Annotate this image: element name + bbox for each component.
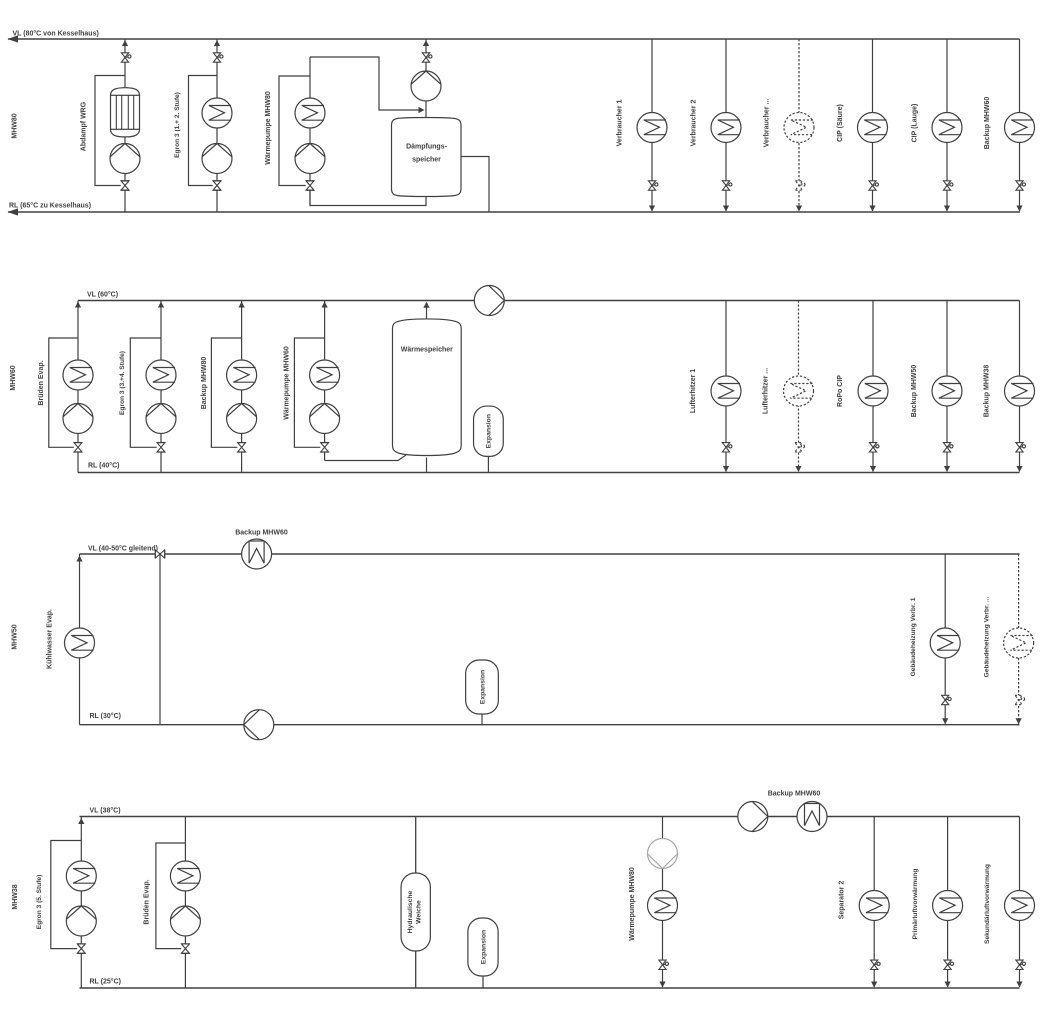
wire Waermepumpe MHW60 to storage tank <box>325 455 406 461</box>
tank Daempfungsspeicher <box>392 118 462 197</box>
svg-text:Verbraucher 2: Verbraucher 2 <box>691 100 698 147</box>
label Egron 3 (5. Stufe) <box>36 875 43 930</box>
wire source branch Egron 3 (5. Stufe) <box>80 817 82 989</box>
wire expansion vessel to RL (MHW60) <box>487 456 489 472</box>
label Backup MHW38 <box>984 365 991 418</box>
wire bypass Waermepumpe MHW80 <box>279 76 310 186</box>
wire consumer branch RoPo CIP <box>872 301 874 472</box>
heat exchanger Waermepumpe MHW80 (MHW38) <box>648 891 678 921</box>
junction arrow into VL (Egron 3 (3.+4. Stufe)) <box>158 302 164 308</box>
wire source branch Brueden Evap. (MHW38) <box>184 817 186 989</box>
junction arrow into RL (Backup MHW50) <box>944 466 950 472</box>
wire bypass Backup MHW80 <box>211 338 241 447</box>
svg-text:MHW38: MHW38 <box>12 884 19 909</box>
label Waermepumpe MHW80 (MHW38) <box>629 867 636 941</box>
label Backup MHW60 <box>984 97 991 150</box>
wire RL MHW50 return header <box>80 724 1020 726</box>
node MHW38 system label <box>12 884 19 909</box>
wire VL to hydraulic separator <box>415 817 417 874</box>
balancing valve (Abdampf WRG) <box>121 181 130 191</box>
label Gebäudeheizung Verbr. 1 <box>910 597 917 676</box>
node RL MHW60 label <box>88 462 119 470</box>
heat exchanger Gebäudeheizung Verbr. 1 <box>930 628 960 658</box>
svg-text:Egron 3 (3.+4. Stufe): Egron 3 (3.+4. Stufe) <box>119 351 126 415</box>
junction arrow into RL (Verbraucher 1) <box>649 206 655 212</box>
control valve V1 (Abdampf WRG) <box>121 53 131 62</box>
control valve (Backup MHW50) <box>943 443 953 452</box>
node MHW50 system label <box>12 624 19 649</box>
wire source branch Wärmepumpe MHW60 <box>324 301 326 461</box>
wire expansion vessel to RL (MHW50) <box>481 714 483 725</box>
label Kuehlwasser Evap. <box>47 609 54 669</box>
junction arrow into RL (Backup MHW60) <box>1016 206 1022 212</box>
svg-text:Kühlwasser Evap.: Kühlwasser Evap. <box>47 609 54 669</box>
pump inline VL MHW60 <box>474 286 504 316</box>
pump inline VL MHW38 <box>738 802 768 832</box>
svg-text:RL (40°C): RL (40°C) <box>88 462 119 470</box>
node VL MHW80 label <box>13 30 99 38</box>
svg-text:RL (25°C): RL (25°C) <box>90 978 121 986</box>
heat exchanger Egron 3 (3.+4. Stufe) <box>146 360 176 390</box>
tank Waermespeicher <box>393 319 462 456</box>
wire RL MHW38 return header <box>80 987 1020 989</box>
junction arrow into RL (Separator 2) <box>871 982 877 988</box>
wire consumer branch Gebäudeheizung Verbr. ... <box>1018 554 1020 724</box>
wire VL MHW50 supply header <box>80 553 1020 555</box>
heat exchanger Backup MHW60 inline <box>242 539 272 569</box>
svg-text:MHW80: MHW80 <box>12 113 19 138</box>
control valve (Waermepumpe MHW80 MHW38) <box>659 960 669 969</box>
svg-text:Hydraulische: Hydraulische <box>407 890 414 933</box>
wire hydraulic separator to RL <box>415 951 417 988</box>
junction arrow into RL (CIP (Lauge)) <box>944 206 950 212</box>
wire consumer branch Lufterhitzer ... <box>798 301 800 472</box>
label Wärmepumpe MHW60 <box>284 346 291 420</box>
pump inline RL MHW50 <box>244 710 274 740</box>
heat exchanger Primärluftvorwärmung <box>933 891 963 921</box>
node MHW60 system label <box>10 365 17 390</box>
junction arrow into VL (Egron 3 5. Stufe) <box>78 818 84 824</box>
balancing valve (Egron 3) <box>213 181 222 191</box>
junction arrow into RL (Lufterhitzer ...) <box>795 466 801 472</box>
control valve (Separator 2) <box>871 960 881 969</box>
expansion vessel MHW38 <box>468 918 498 976</box>
control valve (Sekundärluftvorwärmung) <box>1016 960 1026 969</box>
junction arrow into VL (Abdampf WRG) <box>122 40 128 46</box>
pump (Wärmepumpe MHW60) <box>310 404 340 434</box>
control valve V3 (tank riser) <box>422 53 432 62</box>
svg-text:Wärmepumpe MHW80: Wärmepumpe MHW80 <box>629 867 636 941</box>
heat exchanger Backup MHW60 <box>1005 113 1035 143</box>
junction arrow into RL (Gebäudeheizung Verbr. 1) <box>942 718 948 724</box>
heat exchanger Verbraucher 1 <box>637 113 667 143</box>
svg-text:Backup MHW60: Backup MHW60 <box>235 530 288 537</box>
svg-text:Backup MHW60: Backup MHW60 <box>984 97 991 150</box>
junction arrow into RL (RoPo CIP) <box>870 466 876 472</box>
control valve V2 (Egron 3) <box>213 53 223 62</box>
wire consumer branch Verbraucher ... <box>798 39 800 211</box>
heat exchanger CIP (Lauge) <box>932 113 962 143</box>
label Egron 3 (1.+2. Stufe) <box>174 92 181 158</box>
heat exchanger Egron 3 (1.+2. Stufe) <box>202 98 232 128</box>
control valve (Gebäudeheizung Verbr. ...) <box>1015 695 1025 704</box>
wire tank outlet to RL <box>461 157 489 213</box>
wire Waermepumpe MHW80 bottom to tank <box>310 190 426 205</box>
hydraulic separator Hydraulische Weiche <box>401 873 430 951</box>
wire consumer branch Separator 2 <box>873 817 875 988</box>
pump (Egron 3 (3.+4. Stufe)) <box>146 404 176 434</box>
svg-text:Wärmepumpe MHW60: Wärmepumpe MHW60 <box>284 346 291 420</box>
heat exchanger Egron 3 (5. Stufe) <box>66 861 96 891</box>
heat exchanger Separator 2 <box>859 891 889 921</box>
control valve (Gebäudeheizung Verbr. 1) <box>942 695 952 704</box>
control valve (Verbraucher ...) <box>795 181 805 190</box>
junction arrow into RL (Waermepumpe MHW80 MHW38) <box>659 982 665 988</box>
svg-text:MHW50: MHW50 <box>12 624 19 649</box>
control valve (Backup MHW38) <box>1016 443 1026 452</box>
heat exchanger Abdampf WRG (tube bundle) <box>111 88 140 137</box>
wire Waermepumpe MHW80 to buffer tank feed <box>310 57 419 110</box>
wire VL MHW38 supply header <box>80 816 1020 818</box>
heat exchanger Brueden Evap. (MHW38) <box>170 861 200 891</box>
label Gebäudeheizung Verbr. ... <box>983 597 990 678</box>
label Backup MHW80 <box>201 357 208 410</box>
label Verbraucher ... <box>764 99 771 148</box>
control valve (Verbraucher 1) <box>648 181 658 190</box>
svg-text:VL (80°C von Kesselhaus): VL (80°C von Kesselhaus) <box>13 30 99 38</box>
label Waermespeicher <box>401 347 453 354</box>
heat exchanger Verbraucher 2 <box>711 113 741 143</box>
junction arrow into tank riser <box>419 107 425 113</box>
svg-text:Backup MHW60: Backup MHW60 <box>768 791 821 798</box>
label Verbraucher 1 <box>617 100 624 147</box>
balancing valve (Egron 3 5. Stufe) <box>77 944 86 954</box>
heat exchanger Waermepumpe MHW80 <box>295 98 325 128</box>
label Brueden Evap. (MHW38) <box>144 879 151 924</box>
label Backup MHW60 (inline HX MHW50) <box>235 530 288 537</box>
balancing valve (Backup MHW80) <box>237 443 246 453</box>
wire consumer branch Verbraucher 1 <box>651 39 653 211</box>
wire bypass Brueden Evap. (MHW38) <box>156 843 186 949</box>
heat exchanger Lufterhitzer 1 <box>711 376 741 406</box>
wire consumer branch Verbraucher 2 <box>725 39 727 211</box>
balancing valve (Waermepumpe MHW80) <box>306 181 315 191</box>
svg-text:Egron 3 (1.+ 2. Stufe): Egron 3 (1.+ 2. Stufe) <box>174 92 181 158</box>
svg-text:Lufterhitzer 1: Lufterhitzer 1 <box>690 369 697 413</box>
junction arrow into RL (Verbraucher 2) <box>723 206 729 212</box>
svg-text:RL (65°C zu Kesselhaus): RL (65°C zu Kesselhaus) <box>9 202 91 210</box>
wire source branch Brüden Evap. <box>77 301 79 473</box>
svg-text:Expansion: Expansion <box>480 930 487 964</box>
heat exchanger Backup MHW50 <box>932 376 962 406</box>
label Abdampf WRG <box>81 101 88 151</box>
wire VL MHW60 supply header <box>78 300 1020 302</box>
control valve (CIP (Säure)) <box>869 181 879 190</box>
pump P2 (Egron 3) <box>202 144 232 174</box>
balancing valve on VL (MHW50) <box>155 550 165 559</box>
svg-text:MHW60: MHW60 <box>10 365 17 390</box>
svg-text:Brüden Evap.: Brüden Evap. <box>144 879 151 924</box>
heat exchanger Wärmepumpe MHW60 <box>310 360 340 390</box>
wire consumer branch Backup MHW60 <box>1019 39 1021 211</box>
svg-text:Verbraucher 1: Verbraucher 1 <box>617 100 624 147</box>
pump P3 (Waermepumpe MHW80) <box>295 144 325 174</box>
node RL MHW50 label <box>90 712 121 720</box>
balancing valve (Brüden Evap.) <box>74 443 83 453</box>
junction arrow into VL (Wärmepumpe MHW60) <box>322 302 328 308</box>
wire source branch Egron 3 (3.+4. Stufe) <box>160 301 162 473</box>
svg-text:RoPo CIP: RoPo CIP <box>837 375 844 407</box>
label Backup MHW50 <box>911 365 918 418</box>
control valve (CIP (Lauge)) <box>943 181 953 190</box>
svg-text:Brüden Evap.: Brüden Evap. <box>38 360 45 405</box>
node VL MHW60 label <box>87 291 118 299</box>
wire VL MHW80 supply header <box>8 35 1020 42</box>
junction arrow into RL (Backup MHW38) <box>1016 466 1022 472</box>
heat exchanger Brüden Evap. <box>63 360 93 390</box>
label CIP (Lauge) <box>912 104 919 143</box>
pump P1 (Abdampf WRG) <box>110 144 140 174</box>
pump P4 (tank riser) <box>411 71 441 101</box>
junction arrow into RL (Lufterhitzer 1) <box>723 466 729 472</box>
svg-text:Verbraucher ...: Verbraucher ... <box>764 99 771 148</box>
label Backup MHW60 (inline HX MHW38) <box>768 791 821 798</box>
svg-text:CIP (Säure): CIP (Säure) <box>837 104 844 142</box>
wire storage tank bottom to RL <box>426 458 428 473</box>
label Verbraucher 2 <box>691 100 698 147</box>
svg-text:Lufterhitzer ...: Lufterhitzer ... <box>763 368 770 414</box>
expansion vessel MHW50 <box>466 660 499 714</box>
svg-text:Primärluftvorwärmung: Primärluftvorwärmung <box>912 869 919 940</box>
wire consumer branch Primärluftvorwärmung <box>947 817 949 988</box>
wire RL MHW60 return header <box>78 472 1020 474</box>
heat exchanger Backup MHW60 inline (MHW38) <box>797 802 827 832</box>
label Waermepumpe MHW80 <box>265 91 272 165</box>
heat exchanger RoPo CIP <box>858 376 888 406</box>
pump light (Waermepumpe MHW80 MHW38) <box>648 839 678 869</box>
svg-text:Gebäudeheizung Verbr. 1: Gebäudeheizung Verbr. 1 <box>910 597 917 676</box>
control valve (Verbraucher 2) <box>722 181 732 190</box>
wire branch Waermepumpe MHW80 (MHW38) <box>662 817 664 988</box>
junction arrow into VL (Egron 3) <box>214 40 220 46</box>
wire consumer branch Backup MHW38 <box>1019 301 1021 472</box>
wire consumer branch CIP (Säure) <box>872 39 874 211</box>
wire bypass Egron 3 (5. Stufe) <box>51 841 82 949</box>
node MHW80 system label <box>12 113 19 138</box>
heat exchanger Sekundärluftvorwärmung <box>1005 891 1035 921</box>
label Hydraulische Weiche <box>407 890 422 933</box>
label Egron 3 (3.+4. Stufe) <box>119 351 126 415</box>
svg-text:speicher: speicher <box>412 157 441 164</box>
label Sekundärluftvorwärmung <box>984 864 991 944</box>
balancing valve (Egron 3 (3.+4. Stufe)) <box>157 443 166 453</box>
junction arrow into VL (Brüden Evap.) <box>75 302 81 308</box>
svg-text:VL (60°C): VL (60°C) <box>87 291 118 299</box>
junction arrow into VL (Kuehlwasser Evap.) <box>76 556 82 562</box>
svg-text:Sekundärluftvorwärmung: Sekundärluftvorwärmung <box>984 864 991 944</box>
junction arrow into RL (Gebäudeheizung Verbr. ...) <box>1016 718 1022 724</box>
svg-text:Abdampf WRG: Abdampf WRG <box>81 101 88 151</box>
svg-text:Backup MHW38: Backup MHW38 <box>984 365 991 418</box>
control valve (Primärluftvorwärmung) <box>944 960 954 969</box>
node RL MHW38 label <box>90 978 121 986</box>
label RoPo CIP <box>837 375 844 407</box>
node VL MHW50 label <box>88 545 158 553</box>
balancing valve (Brueden Evap. MHW38) <box>181 944 190 954</box>
wire consumer branch Gebäudeheizung Verbr. 1 <box>944 554 946 724</box>
wire source branch Backup MHW80 <box>241 301 243 473</box>
label Lufterhitzer ... <box>763 368 770 414</box>
junction arrow into RL (CIP (Säure)) <box>869 206 875 212</box>
heat exchanger CIP (Säure) <box>858 113 888 143</box>
svg-text:Dämpfungs-: Dämpfungs- <box>406 144 448 151</box>
heat exchanger Backup MHW38 <box>1005 376 1035 406</box>
heat exchanger Lufterhitzer ... <box>784 376 814 406</box>
label Daempfungsspeicher <box>406 144 448 164</box>
wire expansion vessel to RL (MHW38) <box>482 976 484 988</box>
svg-text:CIP (Lauge): CIP (Lauge) <box>912 104 919 143</box>
wire RL MHW80 return header <box>8 208 1021 215</box>
svg-text:Separator 2: Separator 2 <box>839 881 846 920</box>
pump (Brueden Evap. MHW38) <box>170 906 200 936</box>
pump (Egron 3 5. Stufe) <box>66 906 96 936</box>
wire storage tank top to VL <box>423 302 429 320</box>
control valve (Lufterhitzer ...) <box>795 443 805 452</box>
svg-text:Gebäudeheizung Verbr. ...: Gebäudeheizung Verbr. ... <box>983 597 990 678</box>
control valve (Backup MHW60) <box>1016 181 1026 190</box>
svg-text:Backup MHW80: Backup MHW80 <box>201 357 208 410</box>
svg-text:Expansion: Expansion <box>479 670 486 704</box>
balancing valve (Wärmepumpe MHW60) <box>320 443 329 453</box>
junction arrow into RL (Sekundärluftvorwärmung) <box>1016 982 1022 988</box>
wire branch Abdampf WRG <box>124 39 126 212</box>
svg-text:Wärmespeicher: Wärmespeicher <box>401 347 453 354</box>
control valve (Lufterhitzer 1) <box>722 443 732 452</box>
junction arrow into RL (Primärluftvorwärmung) <box>945 982 951 988</box>
wire bypass riser MHW50 <box>159 554 161 725</box>
svg-text:Wärmepumpe MHW80: Wärmepumpe MHW80 <box>265 91 272 165</box>
control valve (RoPo CIP) <box>869 443 879 452</box>
wire consumer branch Sekundärluftvorwärmung <box>1019 817 1021 988</box>
heat exchanger Kuehlwasser Evap. <box>65 628 95 658</box>
wire consumer branch Lufterhitzer 1 <box>725 301 727 472</box>
wire branch Waermepumpe MHW80 <box>309 57 311 206</box>
label Lufterhitzer 1 <box>690 369 697 413</box>
junction arrow into VL (Backup MHW80) <box>239 302 245 308</box>
node RL MHW80 label <box>9 202 91 210</box>
heat exchanger Verbraucher ... <box>784 113 814 143</box>
pump (Brüden Evap.) <box>63 404 93 434</box>
svg-text:VL (38°C): VL (38°C) <box>90 807 121 815</box>
wire branch Egron 3 (1.+2. Stufe) <box>216 39 218 212</box>
wire bypass Egron 3 (3.+4. Stufe) <box>130 338 161 447</box>
label Primärluftvorwärmung <box>912 869 919 940</box>
label Brüden Evap. <box>38 360 45 405</box>
svg-text:Expansion: Expansion <box>486 414 493 448</box>
junction arrow into RL (Verbraucher ...) <box>796 206 802 212</box>
junction arrow into VL (tank riser) <box>423 40 429 46</box>
svg-text:Egron 3 (5. Stufe): Egron 3 (5. Stufe) <box>36 875 43 930</box>
svg-text:Weiche: Weiche <box>416 900 423 924</box>
expansion vessel MHW60 <box>474 406 504 456</box>
wire bypass Brüden Evap. <box>49 338 78 447</box>
wire consumer branch CIP (Lauge) <box>946 39 948 211</box>
wire tank riser to VL <box>425 39 427 118</box>
svg-text:RL (30°C): RL (30°C) <box>90 712 121 720</box>
node VL MHW38 label <box>90 807 121 815</box>
wire consumer branch Backup MHW50 <box>946 301 948 472</box>
wire source branch Kuehlwasser Evap. <box>79 554 81 725</box>
label Separator 2 <box>839 881 846 920</box>
wire bypass Abdampf WRG <box>95 76 125 186</box>
wire bypass Wärmepumpe MHW60 <box>294 338 324 447</box>
svg-text:VL (40-50°C gleitend): VL (40-50°C gleitend) <box>88 545 158 553</box>
label CIP (Säure) <box>837 104 844 142</box>
svg-text:Backup MHW50: Backup MHW50 <box>911 365 918 418</box>
pump (Backup MHW80) <box>227 404 257 434</box>
heat exchanger Backup MHW80 <box>227 360 257 390</box>
heat exchanger Gebäudeheizung Verbr. ... <box>1004 628 1034 658</box>
wire bypass Egron 3 (1.+2. Stufe) <box>189 76 218 186</box>
